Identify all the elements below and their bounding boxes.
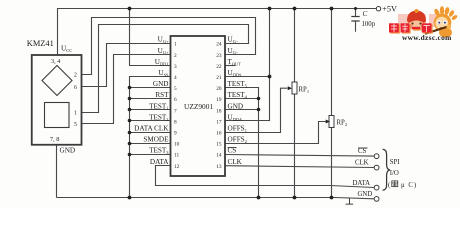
wire DATA CLK pin9 stub [130, 132, 171, 134]
svg-text:DATA CLK: DATA CLK [134, 125, 169, 133]
UZZ9001 left pin labels [134, 36, 169, 166]
wire DATA pin12 to DATA terminal [156, 166, 375, 188]
svg-text:CLK: CLK [228, 158, 243, 166]
wire ground bus for USS/GND/RST/TEST pins [130, 77, 171, 198]
wire RP2 bottom to ground rail [331, 128, 333, 198]
wire OFFS2 pin15 to RP2 wiper [225, 122, 326, 144]
wire RP1 bottom to ground rail [294, 94, 296, 198]
wire SMODE pin10 stub [130, 143, 171, 145]
svg-text:13: 13 [216, 164, 222, 170]
svg-text:GND: GND [60, 147, 76, 155]
wire TEST2 pin8 stub [130, 120, 171, 122]
svg-text:21: 21 [216, 75, 222, 81]
KMZ41 bridge square [45, 103, 70, 128]
svg-text:16: 16 [216, 131, 222, 137]
potentiometer RP1 wiper arrowhead [288, 86, 292, 90]
junction SMODE pin10 on ground bus [128, 142, 132, 146]
wire TEST5 pin20 to ground rail [225, 88, 259, 198]
capacitor C plates [351, 17, 359, 22]
svg-text:UG+: UG+ [158, 36, 169, 44]
wire GND pin18 stub [225, 109, 259, 111]
svg-text:SMODE: SMODE [143, 136, 169, 144]
svg-text:OFFS1: OFFS1 [228, 125, 247, 133]
wire UDDA pin17 to +5V rail [225, 9, 270, 121]
junction RP1 bottom on bottom rail [293, 196, 297, 200]
svg-text:C: C [363, 10, 368, 18]
junction DATA CLK pin9 on ground bus [128, 131, 132, 135]
svg-text:RST: RST [155, 91, 169, 99]
svg-text:24: 24 [216, 42, 222, 48]
junction RP1 top on +5V rail [293, 7, 297, 11]
svg-text:19: 19 [216, 97, 222, 103]
svg-text:UG−: UG− [228, 47, 239, 55]
svg-text:15: 15 [216, 142, 222, 148]
svg-text:USS: USS [158, 69, 169, 77]
svg-text:1: 1 [174, 42, 177, 48]
wire TEST3 pin11 stub [130, 154, 171, 156]
watermark: faded pink text 找芯片 [389, 6, 458, 42]
watermark mascot left (red-cap boy) [407, 9, 426, 31]
svg-text:DATA: DATA [353, 180, 371, 187]
wire RST pin6 stub [130, 98, 171, 100]
wire CLK pin13 to CLK terminal [225, 166, 374, 168]
junction GND pin18 on TEST5 bus [257, 108, 261, 112]
junction capacitor C tap on +5V rail [354, 7, 357, 10]
svg-text:7: 7 [174, 108, 177, 114]
svg-text:RP2: RP2 [337, 120, 348, 127]
svg-text:12: 12 [174, 164, 180, 170]
svg-text:TEST4: TEST4 [228, 91, 248, 99]
junction RP2 top on +5V rail [330, 7, 334, 11]
wire KMZ41 GND to bottom rail [56, 145, 58, 198]
svg-text:9: 9 [174, 131, 177, 137]
svg-text:UG+: UG+ [158, 47, 169, 55]
svg-text:20: 20 [216, 86, 222, 92]
svg-text:TEST5: TEST5 [228, 80, 248, 88]
svg-text:17: 17 [216, 119, 222, 125]
junction RP2 bottom on bottom rail [330, 196, 334, 200]
terminal circles [374, 7, 380, 202]
svg-text:GND: GND [153, 80, 169, 88]
svg-text:TOUT: TOUT [228, 58, 242, 66]
svg-text:UCC: UCC [61, 45, 72, 54]
ground symbol near GND terminal [346, 198, 354, 205]
svg-text:5: 5 [174, 86, 177, 92]
wire KMZ41 pin6 to UZZ9001 pin1 [82, 44, 171, 87]
junction TEST4 pin19 on TEST5 bus [257, 97, 261, 101]
junction GND pin5 on ground bus [128, 86, 132, 90]
wire TOUT pin22 stub [225, 65, 236, 67]
capacitor C1 leads [355, 9, 357, 32]
KMZ41 sensor box [32, 55, 82, 145]
junction RST pin6 on ground bus [128, 97, 132, 101]
wire +5V rail from KMZ41 Ucc to +5V terminal [58, 9, 377, 56]
wire UDD1 pin3 to +5V rail [130, 9, 171, 66]
CLK terminal [374, 165, 379, 170]
svg-text:UG−: UG− [228, 36, 239, 44]
wire UDDS pin21 to +5V vertical [225, 76, 270, 78]
GND terminal [374, 197, 379, 202]
junction UDDS/UDDA tap on +5V rail [268, 7, 272, 11]
svg-text:GND: GND [358, 191, 373, 198]
wire TEST1 pin7 stub [130, 109, 171, 111]
svg-text:CLK: CLK [355, 160, 369, 167]
wire TEST4 pin19 stub [225, 98, 259, 100]
potentiometer RP1 body [292, 82, 297, 94]
svg-text:2: 2 [174, 53, 177, 59]
svg-text:11: 11 [174, 153, 179, 159]
svg-text:DATA: DATA [150, 158, 169, 166]
junction TEST5 bus on bottom rail [257, 196, 261, 200]
svg-text:KMZ41: KMZ41 [27, 39, 54, 48]
KMZ41 bridge diamond [42, 66, 72, 96]
junction UDDA on UDDS wire [268, 75, 272, 79]
svg-text:(: ( [388, 182, 391, 189]
svg-text:1: 1 [74, 110, 77, 116]
wire KMZ41 pin1 to UZZ9001 pin24 via top rail [82, 25, 249, 113]
junction UDD1 tap on +5V rail [128, 7, 132, 11]
svg-text:3: 3 [174, 64, 177, 70]
svg-text:6: 6 [174, 97, 177, 103]
svg-text:TEST2: TEST2 [149, 113, 168, 121]
svg-text:GND: GND [228, 102, 244, 110]
CS terminal [374, 154, 379, 159]
junction ground bus on bottom rail [128, 196, 132, 200]
svg-text:+5V: +5V [382, 4, 397, 13]
UZZ9001 right pin labels [228, 36, 248, 166]
watermark mascot right (orange monkey with hand crown) [426, 6, 458, 37]
svg-text:OFFS2: OFFS2 [228, 136, 247, 144]
potentiometer RP2 body [329, 116, 334, 128]
watermark red text 维库一下 [389, 23, 433, 33]
junction TEST2 pin8 on ground bus [128, 119, 132, 123]
svg-text:4: 4 [174, 75, 177, 81]
svg-text:10: 10 [174, 142, 180, 148]
svg-text:23: 23 [216, 53, 222, 59]
svg-text:22: 22 [216, 64, 222, 70]
wire KMZ41 pin2 to UZZ9001 pin23 via top rail [82, 18, 256, 75]
svg-text:TEST3: TEST3 [149, 147, 169, 155]
svg-text:18: 18 [216, 108, 222, 114]
svg-text:100p: 100p [362, 21, 376, 28]
svg-text:I/O: I/O [390, 170, 399, 177]
svg-text:8: 8 [174, 119, 177, 125]
svg-text:CS: CS [358, 148, 367, 155]
wire OFFS1 pin16 to RP1 wiper [225, 88, 287, 132]
svg-text:RP1: RP1 [299, 87, 310, 94]
overline of CS pin14 [228, 147, 237, 149]
svg-text:UDD1: UDD1 [155, 58, 169, 66]
SPI brace [383, 149, 390, 190]
svg-text:14: 14 [216, 153, 222, 159]
svg-text:μ C): μ C) [401, 182, 417, 189]
junction TEST3 pin11 on ground bus [128, 153, 132, 157]
svg-text:UZZ9001: UZZ9001 [184, 102, 213, 111]
wire RP1 top to +5V rail [294, 9, 296, 83]
wire KMZ41 pin5 to UZZ9001 pin2 [82, 55, 171, 124]
+5V terminal [376, 7, 380, 11]
KMZ41 pin numbers [74, 73, 77, 129]
svg-text:3, 4: 3, 4 [51, 58, 60, 65]
svg-text:TEST1: TEST1 [149, 102, 168, 110]
svg-text:6: 6 [74, 85, 77, 91]
wire RP2 top to +5V rail [331, 9, 333, 116]
svg-text:7, 8: 7, 8 [50, 136, 59, 143]
UZZ9001 pin numbers [174, 42, 222, 170]
svg-text:2: 2 [74, 73, 77, 79]
wire bottom ground rail [57, 198, 375, 199]
UZZ9001 IC box [171, 36, 226, 176]
svg-text:UDDS: UDDS [228, 69, 243, 77]
DATA terminal [374, 185, 379, 190]
wire GND pin5 stub [130, 87, 171, 89]
potentiometer RP2 wiper arrowhead [326, 120, 330, 124]
junction TEST1 pin7 on ground bus [128, 108, 132, 112]
svg-text:UDDA: UDDA [228, 113, 244, 121]
svg-text:5: 5 [74, 122, 77, 128]
svg-text:www.dzsc.com: www.dzsc.com [402, 33, 452, 42]
svg-text:SPI: SPI [390, 159, 401, 166]
wire CS pin14 to CS terminal [225, 155, 374, 157]
